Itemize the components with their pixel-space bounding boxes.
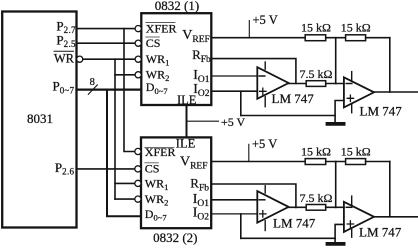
resistor R1 15k body xyxy=(305,35,326,41)
svg-text:LM 747: LM 747 xyxy=(272,91,315,106)
wire ground rail top section xyxy=(241,115,335,117)
wire P2.6 to CS(2) xyxy=(77,168,135,170)
op-amp U5b V- stub xyxy=(351,228,353,237)
op-amp U4b minus sign xyxy=(346,83,352,85)
wire data bus P0~7 to D0~7(1) xyxy=(77,88,142,90)
op-amp U5b V+ stub xyxy=(351,196,353,206)
svg-text:15 kΩ: 15 kΩ xyxy=(341,144,371,158)
svg-text:0832 (2): 0832 (2) xyxy=(153,230,197,245)
svg-text:15 kΩ: 15 kΩ xyxy=(341,20,371,34)
wire U5a output to R6 xyxy=(289,206,307,208)
wire IO2 branch down to ground rail xyxy=(240,91,242,115)
wire ILE +5V lead xyxy=(187,120,219,122)
wire R4 to feedback corner xyxy=(366,161,390,163)
svg-text:7.5 kΩ: 7.5 kΩ xyxy=(300,67,333,81)
wire IO2(1) to non-inverting input xyxy=(211,90,257,92)
op-amp U5b triangle xyxy=(344,202,374,232)
U2 pin bubble WR1 xyxy=(135,56,141,62)
wire VREF(1) xyxy=(211,37,305,39)
wire U5b output Vout2 xyxy=(374,216,418,218)
svg-text:15 kΩ: 15 kΩ xyxy=(301,144,331,158)
wire U4a output to R5 xyxy=(289,83,307,85)
wire branch P2.7 down to XFER(2) xyxy=(124,29,135,152)
op-amp U4a triangle xyxy=(257,67,288,99)
svg-text:LM 747: LM 747 xyxy=(359,225,402,240)
supply tick +5V bottom xyxy=(248,144,250,161)
resistor R6 7.5k body xyxy=(306,205,326,211)
svg-text:CS: CS xyxy=(146,36,161,50)
wire R1 to R2 xyxy=(326,37,346,39)
ground bottom section xyxy=(328,242,344,246)
wire IO2(2) to non-inverting input xyxy=(211,213,257,215)
svg-text:0832 (1): 0832 (1) xyxy=(155,0,199,13)
wire Rfb(1) to op-amp output xyxy=(211,59,296,84)
resistor R3 15k body xyxy=(305,159,326,165)
supply tick +5V top xyxy=(248,21,250,38)
op-amp U4b triangle xyxy=(344,77,374,107)
op-amp U4a V+ stub xyxy=(264,62,266,69)
wire U4b output Vout1 xyxy=(374,91,418,93)
svg-text:CS: CS xyxy=(145,161,160,175)
op-amp U5a plus sign xyxy=(260,211,266,217)
svg-text:7.5 kΩ: 7.5 kΩ xyxy=(300,191,333,205)
IC U2 DAC0832(1) box xyxy=(141,13,211,105)
svg-text:8031: 8031 xyxy=(27,111,53,126)
wire P2.7 to XFER(1) xyxy=(77,28,136,30)
wire U5b non-inverting input to ground xyxy=(335,224,344,242)
op-amp U4a plus sign xyxy=(260,88,266,94)
svg-text:+5 V: +5 V xyxy=(253,13,278,27)
op-amp U4b plus sign xyxy=(347,95,353,101)
svg-text:XFER: XFER xyxy=(145,145,176,159)
svg-text:8: 8 xyxy=(90,77,95,88)
wire WR branch to WR1(2) xyxy=(115,182,135,184)
svg-text:LM 747: LM 747 xyxy=(360,104,403,119)
op-amp U5a V- stub xyxy=(264,221,266,231)
pin bubble WR on 8031 xyxy=(77,56,83,62)
wire R6 to U5b inverting input xyxy=(326,206,344,208)
op-amp U4b V- stub xyxy=(351,104,353,113)
wire R5 to U4b inverting input xyxy=(326,83,344,85)
U2 pin bubble CS xyxy=(135,40,141,46)
U3 pin bubble WR2 xyxy=(135,196,141,202)
wire junction down to op-amp U4b input node xyxy=(335,38,337,84)
op-amp U5b plus sign xyxy=(347,221,353,227)
U3 pin bubble WR1 xyxy=(135,180,141,186)
U2 pin bubble WR2 xyxy=(135,72,141,78)
wire WR branch to WR2(1) xyxy=(115,74,135,76)
wire ILE(1) to ILE(2) xyxy=(186,105,188,137)
svg-text:+5 V: +5 V xyxy=(221,115,246,129)
wire ground rail bottom section xyxy=(241,237,335,239)
resistor R2 15k body xyxy=(346,35,366,41)
IC U1 8031 box xyxy=(2,12,76,228)
wire VREF(2) xyxy=(211,161,305,163)
op-amp U5b minus sign xyxy=(346,206,352,208)
op-amp U4b V+ stub xyxy=(351,72,353,82)
svg-text:LM 747: LM 747 xyxy=(273,216,316,231)
svg-text:15 kΩ: 15 kΩ xyxy=(301,20,331,34)
op-amp U4a minus sign xyxy=(259,75,265,77)
resistor R4 15k body xyxy=(346,159,366,165)
op-amp U5a triangle xyxy=(257,191,288,223)
wire R2 to feedback corner xyxy=(366,37,390,39)
bus width slash xyxy=(88,85,97,95)
U2 pin bubble XFER xyxy=(135,26,141,32)
svg-text:WR: WR xyxy=(54,51,75,65)
wire data bus branch to D0~7(2) xyxy=(107,90,140,217)
U3 pin bubble CS xyxy=(135,166,141,172)
wire Rfb(2) to op-amp output xyxy=(211,184,296,207)
wire P2.5 to CS(1) xyxy=(77,42,136,44)
op-amp U4a V- stub xyxy=(264,97,266,107)
wire WR branch to WR2(2) xyxy=(115,198,135,200)
wire U4b non-inverting input to ground xyxy=(335,101,344,123)
svg-text:XFER: XFER xyxy=(146,21,177,35)
wire junction down to op-amp U5b input node xyxy=(335,162,337,208)
wire R3 to R4 xyxy=(326,161,346,163)
ground top section xyxy=(328,122,344,126)
wire IO1(1) to inverting input xyxy=(211,75,257,77)
wire WR to WR1(1) xyxy=(83,58,135,60)
wire IO2 branch down to ground rail bottom xyxy=(240,214,242,238)
wire feedback down to output U5b xyxy=(389,162,391,217)
wire WR vertical trunk xyxy=(114,59,116,199)
resistor R5 7.5k body xyxy=(306,81,326,87)
op-amp U5a V+ stub xyxy=(264,186,266,193)
wire IO1(2) to inverting input xyxy=(211,199,257,201)
svg-text:ILE: ILE xyxy=(176,137,196,151)
op-amp U5a minus sign xyxy=(259,199,265,201)
U3 pin bubble XFER xyxy=(135,148,141,154)
svg-text:+5 V: +5 V xyxy=(252,137,277,151)
wire feedback down to output U4b xyxy=(389,38,391,92)
IC U3 DAC0832(2) box xyxy=(141,137,211,228)
